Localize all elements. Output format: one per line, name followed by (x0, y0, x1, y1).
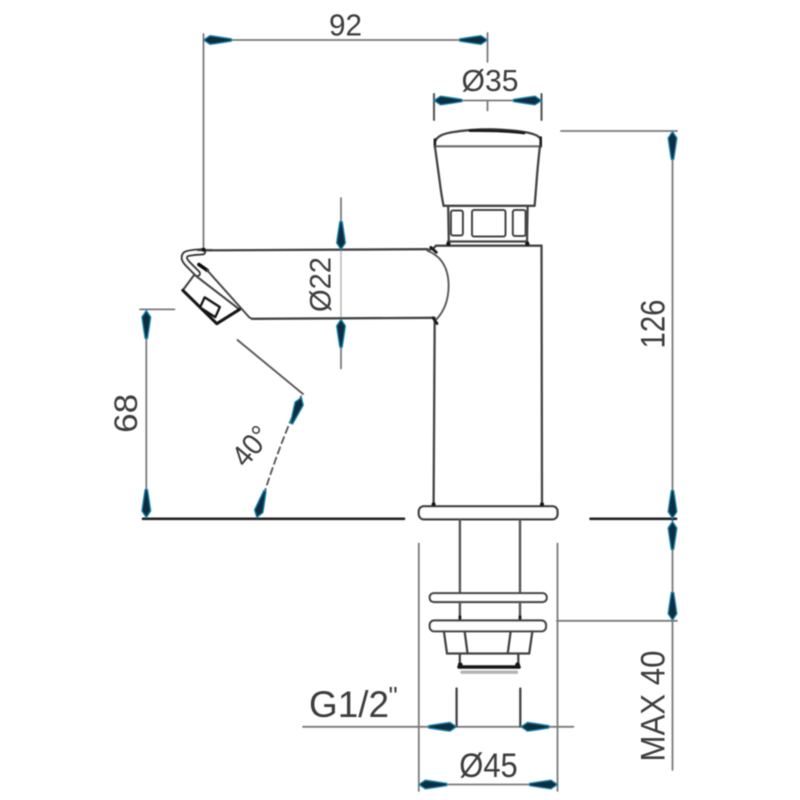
svg-text:126: 126 (635, 300, 673, 349)
svg-text:": " (389, 681, 398, 711)
svg-text:MAX 40: MAX 40 (635, 651, 673, 762)
svg-text:Ø35: Ø35 (462, 63, 519, 98)
svg-text:Ø22: Ø22 (305, 257, 338, 312)
svg-text:68: 68 (108, 394, 144, 433)
svg-text:92: 92 (329, 7, 362, 42)
svg-text:Ø45: Ø45 (459, 747, 518, 785)
svg-text:G1/2: G1/2 (309, 683, 389, 725)
